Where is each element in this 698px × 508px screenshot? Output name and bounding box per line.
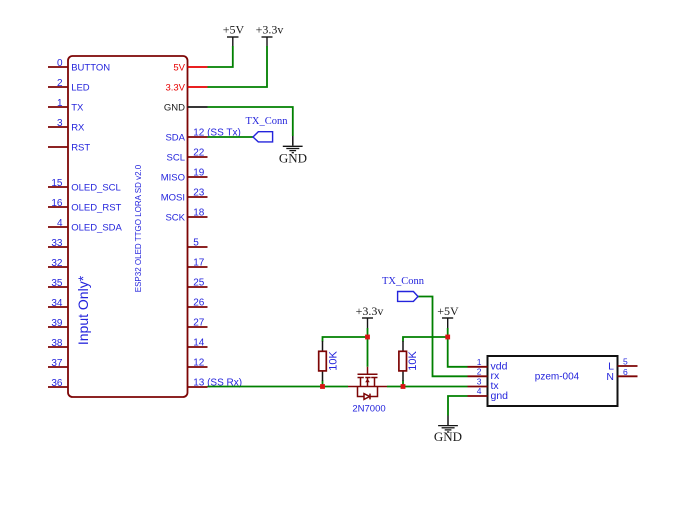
svg-text:3.3V: 3.3V (165, 82, 185, 93)
svg-text:GND: GND (434, 429, 462, 444)
svg-text:36: 36 (51, 378, 63, 389)
svg-text:26: 26 (193, 298, 205, 309)
svg-text:+3.3v: +3.3v (256, 23, 284, 37)
svg-text:2: 2 (57, 78, 63, 89)
svg-text:LED: LED (71, 82, 90, 93)
svg-text:5V: 5V (173, 62, 185, 73)
svg-text:2: 2 (477, 366, 482, 376)
svg-text:27: 27 (193, 318, 205, 329)
svg-text:MOSI: MOSI (161, 192, 185, 203)
svg-text:35: 35 (51, 278, 63, 289)
svg-text:16: 16 (51, 198, 63, 209)
svg-text:MISO: MISO (161, 172, 185, 183)
svg-text:TX: TX (71, 102, 84, 113)
svg-text:gnd: gnd (491, 390, 509, 402)
svg-text:23: 23 (193, 188, 205, 199)
svg-text:14: 14 (193, 338, 205, 349)
svg-text:pzem-004: pzem-004 (535, 372, 580, 383)
svg-text:12: 12 (193, 358, 205, 369)
svg-text:5: 5 (193, 238, 199, 249)
svg-text:34: 34 (51, 298, 63, 309)
svg-text:37: 37 (51, 358, 63, 369)
svg-text:22: 22 (193, 148, 205, 159)
svg-text:10K: 10K (407, 351, 419, 371)
svg-text:38: 38 (51, 338, 63, 349)
svg-text:OLED_SCL: OLED_SCL (71, 182, 121, 193)
svg-text:RST: RST (71, 142, 90, 153)
svg-text:6: 6 (623, 367, 628, 377)
svg-text:1: 1 (477, 357, 482, 367)
svg-text:4: 4 (57, 218, 63, 229)
svg-text:RX: RX (71, 122, 85, 133)
svg-text:25: 25 (193, 278, 205, 289)
svg-text:19: 19 (193, 168, 205, 179)
svg-text:N: N (606, 371, 614, 383)
svg-text:32: 32 (51, 258, 63, 269)
svg-text:3: 3 (57, 118, 63, 129)
svg-text:3: 3 (477, 376, 482, 386)
svg-text:2N7000: 2N7000 (352, 404, 385, 415)
svg-text:15: 15 (51, 178, 63, 189)
svg-text:GND: GND (279, 151, 307, 166)
svg-text:4: 4 (477, 386, 482, 396)
svg-text:18: 18 (193, 208, 205, 219)
svg-text:OLED_SDA: OLED_SDA (71, 222, 122, 233)
svg-text:1: 1 (57, 98, 63, 109)
svg-text:SCK: SCK (165, 212, 185, 223)
svg-text:Input Only*: Input Only* (75, 275, 91, 345)
svg-text:ESP32 OLED TTGO LORA SD v2.0: ESP32 OLED TTGO LORA SD v2.0 (134, 164, 143, 292)
svg-text:OLED_RST: OLED_RST (71, 202, 121, 213)
svg-text:SDA: SDA (165, 132, 185, 143)
svg-text:SCL: SCL (167, 152, 185, 163)
svg-text:+5V: +5V (437, 304, 459, 318)
svg-text:TX_Conn: TX_Conn (382, 276, 425, 287)
svg-text:0: 0 (57, 58, 63, 69)
svg-text:17: 17 (193, 258, 205, 269)
svg-text:5: 5 (623, 357, 628, 367)
svg-text:BUTTON: BUTTON (71, 62, 110, 73)
svg-text:TX_Conn: TX_Conn (246, 116, 289, 127)
svg-text:GND: GND (164, 102, 185, 113)
svg-text:+3.3v: +3.3v (356, 304, 384, 318)
svg-text:10K: 10K (328, 351, 340, 371)
svg-text:39: 39 (51, 318, 63, 329)
svg-text:+5V: +5V (223, 23, 245, 37)
svg-text:33: 33 (51, 238, 63, 249)
